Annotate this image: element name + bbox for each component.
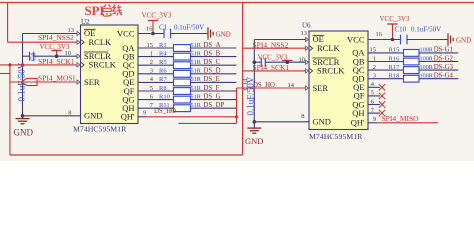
svg-text:GND: GND <box>216 30 231 38</box>
svg-text:15: 15 <box>147 42 154 49</box>
svg-text:RCLK: RCLK <box>317 43 341 53</box>
svg-text:R7: R7 <box>159 76 167 83</box>
svg-text:C10: C10 <box>395 26 407 34</box>
svg-text:GND: GND <box>84 111 102 121</box>
svg-text:DS_F: DS_F <box>204 85 220 92</box>
svg-text:VCC: VCC <box>347 34 365 44</box>
svg-text:DS_B: DS_B <box>204 50 221 57</box>
svg-text:9: 9 <box>143 110 146 117</box>
svg-text:13: 13 <box>301 30 308 37</box>
svg-text:51R: 51R <box>191 85 202 92</box>
svg-text:SER: SER <box>84 77 100 87</box>
svg-text:1: 1 <box>373 55 376 62</box>
svg-text:R6: R6 <box>159 68 167 75</box>
svg-text:0.1uF/50V: 0.1uF/50V <box>411 26 441 34</box>
svg-text:51R: 51R <box>191 76 202 83</box>
svg-text:QH': QH' <box>351 118 365 128</box>
svg-text:R15: R15 <box>389 47 400 54</box>
svg-text:DS_D: DS_D <box>204 68 221 75</box>
svg-text:C4: C4 <box>30 52 38 61</box>
svg-text:0.1uF/50V: 0.1uF/50V <box>174 24 204 32</box>
svg-text:VCC_3V3: VCC_3V3 <box>142 12 172 20</box>
svg-text:QH': QH' <box>121 112 135 122</box>
svg-text:16: 16 <box>376 31 383 38</box>
svg-text:R16: R16 <box>389 55 401 62</box>
svg-text:15: 15 <box>370 47 377 54</box>
svg-text:DS_HO: DS_HO <box>253 82 275 89</box>
svg-text:51R: 51R <box>191 42 202 49</box>
svg-text:3: 3 <box>373 73 376 80</box>
svg-text:100R: 100R <box>420 64 434 71</box>
svg-text:RCLK: RCLK <box>89 37 113 47</box>
svg-text:9: 9 <box>373 116 376 123</box>
svg-text:1: 1 <box>150 50 153 57</box>
svg-text:SPI4_SCK1: SPI4_SCK1 <box>38 57 75 66</box>
svg-text:SPI4_NSS2: SPI4_NSS2 <box>253 40 289 49</box>
svg-text:R18: R18 <box>389 73 400 80</box>
svg-text:51R: 51R <box>191 102 202 109</box>
svg-text:QH: QH <box>352 108 364 118</box>
svg-text:DS_C: DS_C <box>204 59 221 66</box>
svg-text:DS_G: DS_G <box>204 93 221 100</box>
svg-text:SER: SER <box>313 83 329 93</box>
svg-text:5: 5 <box>371 90 374 97</box>
svg-text:VCC: VCC <box>117 28 135 38</box>
svg-text:100R: 100R <box>420 55 434 62</box>
svg-text:DS_E: DS_E <box>204 76 220 83</box>
svg-text:DS_HO: DS_HO <box>154 108 176 115</box>
svg-text:51R: 51R <box>191 68 202 75</box>
svg-text:2: 2 <box>150 59 153 66</box>
svg-text:51R: 51R <box>191 50 202 57</box>
svg-text:DS-G1: DS-G1 <box>434 47 453 54</box>
svg-text:R5: R5 <box>159 59 167 66</box>
svg-text:GND: GND <box>245 136 263 146</box>
svg-text:DS_A: DS_A <box>204 42 221 49</box>
svg-text:100R: 100R <box>420 73 434 80</box>
svg-text:VCC_3V3: VCC_3V3 <box>40 43 70 51</box>
svg-text:GND: GND <box>14 128 34 138</box>
svg-text:2: 2 <box>373 64 376 71</box>
svg-text:R8: R8 <box>159 85 167 92</box>
svg-text:R10: R10 <box>159 93 170 100</box>
svg-text:SPI4_MOSI: SPI4_MOSI <box>38 73 76 82</box>
svg-text:DS-G3: DS-G3 <box>434 64 454 71</box>
svg-text:51R: 51R <box>191 59 202 66</box>
svg-text:C1: C1 <box>159 24 168 32</box>
svg-text:VCC_3V3: VCC_3V3 <box>380 15 410 23</box>
svg-text:51R: 51R <box>191 93 202 100</box>
svg-text:14: 14 <box>288 82 295 89</box>
svg-text:16: 16 <box>146 26 153 33</box>
svg-text:3: 3 <box>150 68 153 75</box>
svg-text:SRCLK: SRCLK <box>317 66 345 76</box>
svg-text:SPI4_MISO: SPI4_MISO <box>382 114 420 123</box>
svg-text:SPI: SPI <box>85 3 105 18</box>
svg-text:SPI4_SCK1: SPI4_SCK1 <box>253 63 290 72</box>
svg-text:M74HC595M1R: M74HC595M1R <box>309 132 363 141</box>
svg-text:GND: GND <box>456 37 471 45</box>
svg-text:DS-G2: DS-G2 <box>434 55 454 62</box>
svg-text:R4: R4 <box>159 50 167 57</box>
svg-text:8: 8 <box>301 113 304 120</box>
svg-text:100R: 100R <box>420 47 434 54</box>
svg-text:8: 8 <box>68 110 71 117</box>
svg-text:DS_DP: DS_DP <box>204 102 225 109</box>
svg-text:5: 5 <box>150 85 153 92</box>
svg-text:SPI4_NSS2: SPI4_NSS2 <box>38 33 74 42</box>
svg-text:GND: GND <box>313 117 331 127</box>
svg-text:SRCLK: SRCLK <box>89 60 117 70</box>
svg-text:M74HC595M1R: M74HC595M1R <box>73 125 127 134</box>
svg-text:U2: U2 <box>81 18 90 26</box>
svg-text:DS-G4: DS-G4 <box>434 73 454 80</box>
svg-text:R1: R1 <box>159 42 167 49</box>
svg-text:U6: U6 <box>302 22 311 30</box>
svg-text:R17: R17 <box>389 64 401 71</box>
